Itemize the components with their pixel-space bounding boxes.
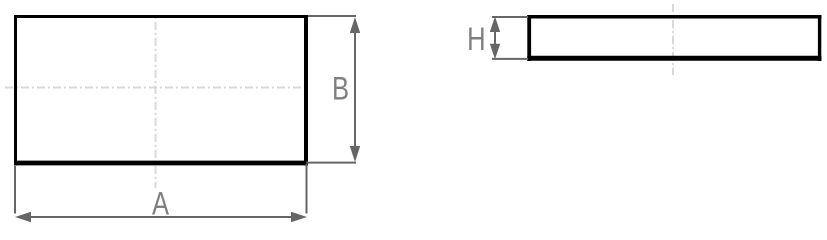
front view flat bar outline [14,15,308,166]
dimension A extension line left [14,166,16,214]
dimension B extension line bottom [306,162,356,164]
dimension H extension line top [492,16,528,18]
dimension A line with arrows [15,212,307,223]
side view vertical centerline [672,4,674,75]
dimension A extension line right [306,164,308,214]
dimension B line with arrows [350,17,360,162]
side view flat bar outline [527,15,821,61]
svg-text:H: H [467,23,485,58]
dimension H extension line bottom [492,58,528,60]
front view horizontal centerline [5,87,306,89]
svg-text:B: B [332,72,349,107]
front view vertical centerline [155,14,157,188]
svg-text:A: A [152,187,170,222]
dimension H line with arrows [490,17,500,60]
dimension B extension line top [308,15,356,17]
